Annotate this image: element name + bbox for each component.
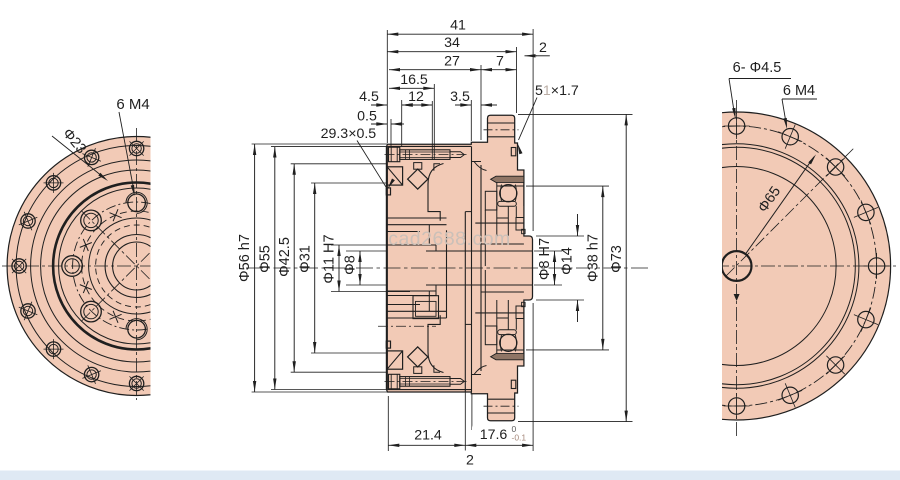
- svg-text:41: 41: [450, 18, 466, 34]
- svg-text:Φ42.5: Φ42.5: [277, 237, 293, 277]
- svg-text:17.6: 17.6: [480, 427, 508, 443]
- svg-text:3.5: 3.5: [450, 89, 470, 105]
- svg-text:Φ38 h7: Φ38 h7: [586, 234, 602, 282]
- svg-text:-0.1: -0.1: [512, 433, 527, 443]
- svg-text:Φ56 h7: Φ56 h7: [237, 234, 253, 282]
- svg-text:12: 12: [408, 89, 424, 105]
- svg-text:4.5: 4.5: [359, 89, 379, 105]
- svg-text:cad2688.com: cad2688.com: [388, 228, 511, 250]
- svg-text:51×1.7: 51×1.7: [535, 83, 579, 99]
- svg-text:Φ8 H7: Φ8 H7: [537, 238, 553, 280]
- svg-text:7: 7: [496, 54, 504, 70]
- svg-text:2: 2: [539, 40, 547, 56]
- svg-text:Φ73: Φ73: [609, 245, 625, 273]
- svg-text:21.4: 21.4: [414, 428, 442, 444]
- svg-text:Φ8: Φ8: [343, 255, 359, 275]
- svg-text:Φ11 H7: Φ11 H7: [322, 234, 338, 283]
- svg-text:16.5: 16.5: [400, 72, 428, 88]
- svg-text:Φ31: Φ31: [298, 245, 314, 273]
- svg-text:6 M4: 6 M4: [116, 96, 149, 113]
- svg-text:2: 2: [466, 453, 474, 469]
- svg-text:29.3×0.5: 29.3×0.5: [321, 126, 377, 142]
- svg-text:Φ55: Φ55: [258, 245, 274, 273]
- svg-text:6- Φ4.5: 6- Φ4.5: [733, 60, 782, 76]
- svg-text:0.5: 0.5: [357, 109, 377, 125]
- svg-text:34: 34: [444, 35, 460, 51]
- svg-text:27: 27: [444, 54, 460, 70]
- svg-text:6 M4: 6 M4: [783, 83, 815, 99]
- svg-text:Φ14: Φ14: [560, 247, 576, 275]
